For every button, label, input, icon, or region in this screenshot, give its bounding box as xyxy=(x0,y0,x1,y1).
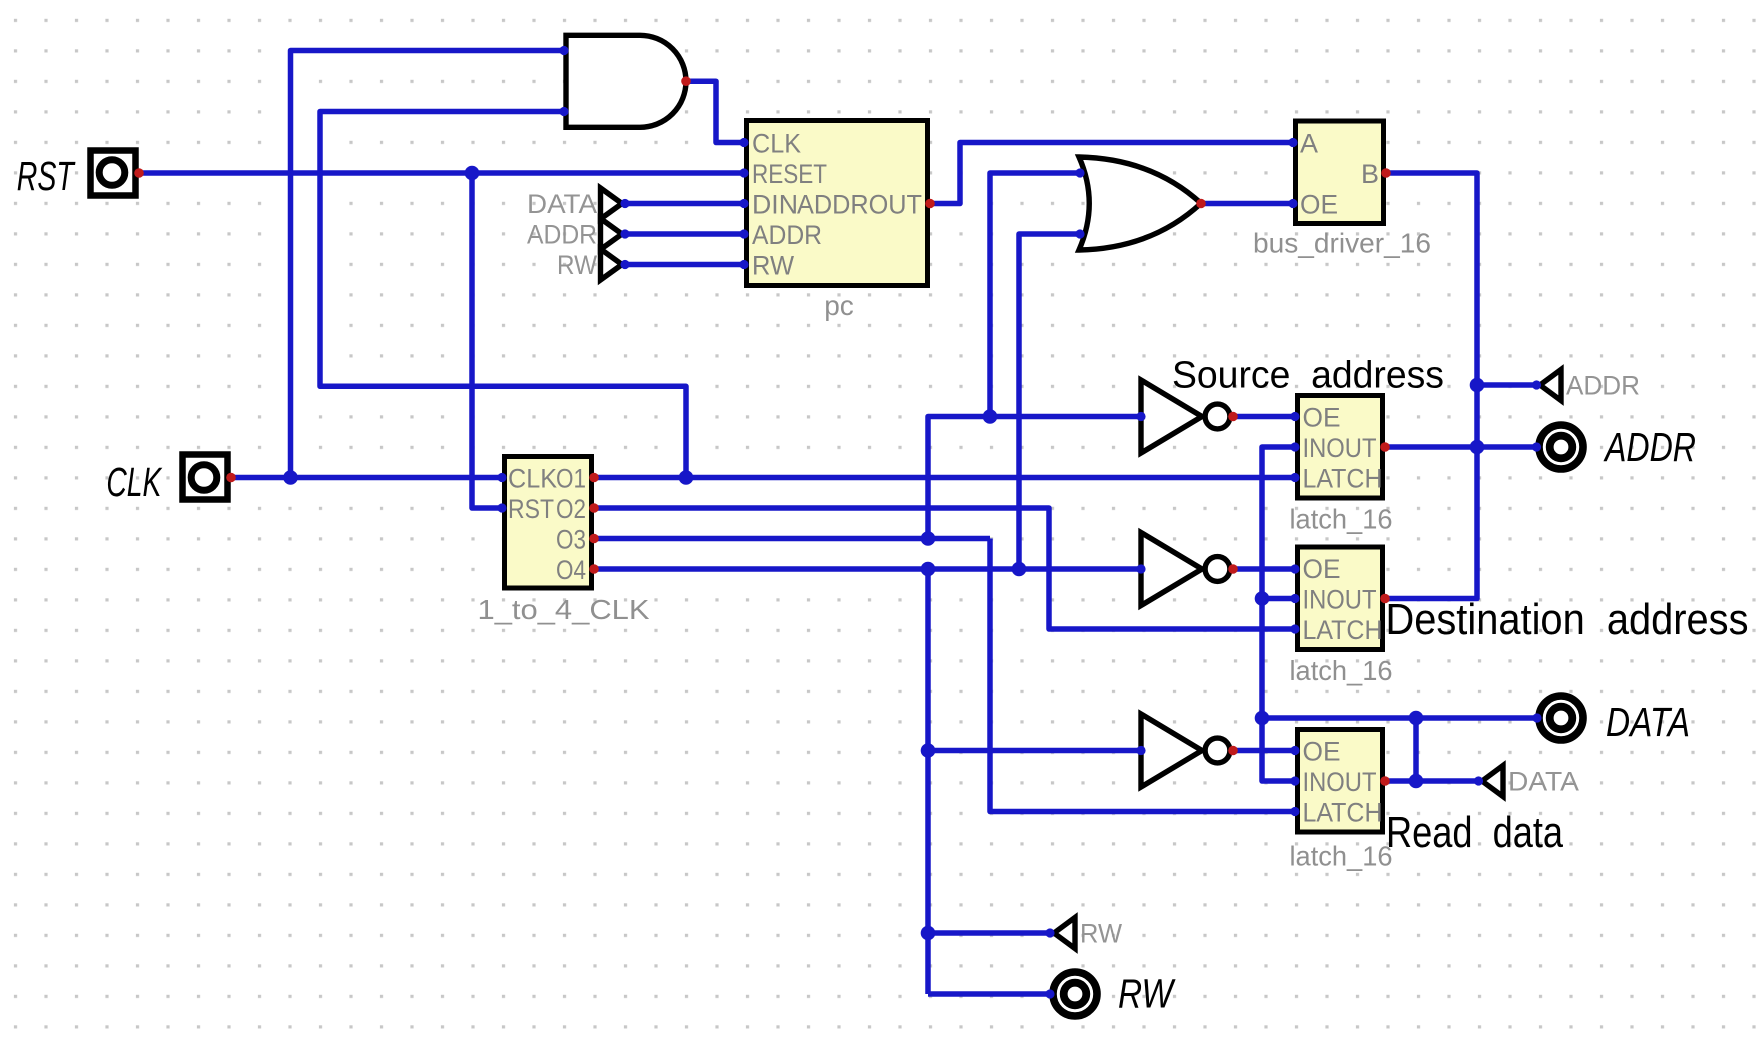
junction on O3 net at OR branch xyxy=(983,409,998,424)
pin dot pc RESET xyxy=(739,168,748,177)
pin dot RW tunnel bottom xyxy=(1045,928,1054,937)
junction on O4 net at OR branch xyxy=(1012,562,1027,577)
svg-text:CLK: CLK xyxy=(106,459,162,505)
svg-text:latch_16: latch_16 xyxy=(1290,504,1393,535)
tunnel ADDR input xyxy=(527,219,622,250)
svg-text:O1: O1 xyxy=(556,464,586,494)
block pc xyxy=(747,121,928,322)
red pin O4 xyxy=(589,564,599,574)
wire O2 to latch2 LATCH xyxy=(594,508,1295,629)
wire O1 branch to AND input 2 xyxy=(320,112,686,478)
tunnel RW bottom xyxy=(1054,918,1122,949)
junction on O4 net at RW tunnel branch xyxy=(921,926,936,941)
wire RST net horizontal xyxy=(139,170,744,176)
junction on data bus at latch2 INOUT xyxy=(1255,591,1270,606)
svg-text:RW: RW xyxy=(1118,971,1176,1017)
red pin NOT3 output xyxy=(1228,746,1238,756)
svg-text:INOUT: INOUT xyxy=(1303,433,1377,463)
pin dot RW output xyxy=(1045,989,1054,998)
svg-text:B: B xyxy=(1361,159,1379,189)
wire O3 to latch3 LATCH xyxy=(990,539,1295,812)
pin dot pc RW xyxy=(739,260,748,269)
pin dot latch3 INOUT xyxy=(1290,776,1299,785)
wire ADDR bus to ADDR tunnel xyxy=(1477,382,1537,388)
svg-text:DATA: DATA xyxy=(527,189,597,219)
junction on ADDR bus at output xyxy=(1470,440,1485,455)
svg-text:Destination address: Destination address xyxy=(1386,596,1749,644)
svg-text:pc: pc xyxy=(824,290,854,321)
pin dot DATA tunnel xyxy=(620,199,629,208)
output ADDR xyxy=(1539,425,1583,469)
junction on O4 net at NOT3 branch xyxy=(921,743,936,758)
pin dot pc ADDR xyxy=(739,229,748,238)
svg-text:1_to_4_CLK: 1_to_4_CLK xyxy=(478,594,650,625)
svg-text:OE: OE xyxy=(1300,190,1338,220)
wire to RW tunnel xyxy=(928,930,1050,936)
red pin latch2 INOUT right xyxy=(1380,594,1390,604)
wire data bus vertical link xyxy=(1413,718,1419,781)
wire O1 to latch1 LATCH xyxy=(594,475,1295,481)
svg-text:Source address: Source address xyxy=(1172,355,1444,397)
red pin latch3 INOUT right xyxy=(1380,776,1390,786)
output DATA xyxy=(1539,696,1583,740)
block latch_16 source xyxy=(1290,396,1393,535)
red pin NOT2 output xyxy=(1228,564,1238,574)
pin dot NOT1 input xyxy=(1136,412,1145,421)
svg-text:ADDR: ADDR xyxy=(527,220,597,250)
pin dot ADDR tunnel xyxy=(620,229,629,238)
svg-text:LATCH: LATCH xyxy=(1303,615,1383,645)
block latch_16 destination xyxy=(1290,547,1393,686)
block latch_16 read xyxy=(1290,730,1393,872)
wire OR input 2 from O4 net xyxy=(1019,234,1080,569)
junction on CLK net xyxy=(283,470,298,485)
pin dot AND input 1 xyxy=(559,46,568,55)
pin dot latch2 OE xyxy=(1290,564,1299,573)
svg-text:INOUT: INOUT xyxy=(1303,767,1377,797)
wire bus_driver B to ADDR bus xyxy=(1385,173,1477,599)
pin dot bus_driver A xyxy=(1288,138,1297,147)
red pin NOT1 output xyxy=(1228,412,1238,422)
tunnel ADDR right xyxy=(1540,370,1640,401)
pin dot latch3 OE xyxy=(1290,746,1299,755)
pin dot AND input 2 xyxy=(559,107,568,116)
svg-text:RW: RW xyxy=(752,251,794,281)
svg-text:OE: OE xyxy=(1303,554,1341,584)
pin dot pc CLK xyxy=(739,138,748,147)
svg-text:RST: RST xyxy=(17,153,76,199)
svg-text:OE: OE xyxy=(1303,737,1341,767)
red pin CLK button xyxy=(226,473,236,483)
red pin AND output xyxy=(681,76,691,86)
svg-text:INOUT: INOUT xyxy=(1303,585,1377,615)
pin dot bus_driver OE xyxy=(1288,199,1297,208)
wire latch1 INOUT to ADDR output xyxy=(1385,444,1537,450)
pin dot 1_to_4 CLK xyxy=(497,473,506,482)
svg-text:DATA: DATA xyxy=(1606,699,1690,745)
pin dot latch1 INOUT xyxy=(1290,442,1299,451)
wire NOT1 output to latch1 OE xyxy=(1233,414,1295,420)
svg-text:O2: O2 xyxy=(556,494,586,524)
wire DATA tunnel to pc DIN xyxy=(625,201,744,207)
wire to RW output xyxy=(928,991,1050,997)
red pin O2 xyxy=(589,503,599,513)
svg-text:O3: O3 xyxy=(556,525,586,555)
wire O4 branch down RW xyxy=(925,569,931,994)
svg-text:CLK: CLK xyxy=(752,129,801,159)
wire CLK branch to AND input 1 xyxy=(291,51,565,478)
svg-text:ADDR: ADDR xyxy=(752,220,822,250)
junction on DATA tunnel line xyxy=(1409,774,1424,789)
svg-text:ADDROUT: ADDROUT xyxy=(797,190,922,220)
wire data bus vertical latch INOUTs xyxy=(1262,447,1295,781)
junction on O3 net at NOT1 branch xyxy=(921,531,936,546)
svg-text:RW: RW xyxy=(1080,919,1122,949)
red pin O1 xyxy=(589,473,599,483)
junction on RST net xyxy=(465,166,480,181)
tunnel DATA input xyxy=(527,188,622,219)
svg-text:RST: RST xyxy=(508,494,554,524)
junction on O4 net at RW branch xyxy=(921,562,936,577)
pin dot latch1 LATCH xyxy=(1290,473,1299,482)
pin dot ADDR tunnel right xyxy=(1532,380,1541,389)
svg-text:CLK: CLK xyxy=(508,464,557,494)
pin dot RW tunnel xyxy=(620,260,629,269)
wire latch3 INOUT to DATA tunnel xyxy=(1385,778,1479,784)
pin dot OR input 1 xyxy=(1075,168,1084,177)
NOT gate U3 xyxy=(1141,380,1230,453)
wire O4 to NOT2 input xyxy=(594,566,1141,572)
pin dot ADDR output xyxy=(1532,442,1541,451)
pin dot latch1 OE xyxy=(1290,412,1299,421)
pin dot NOT2 input xyxy=(1136,564,1145,573)
red pin bus_driver B xyxy=(1381,168,1391,178)
svg-text:RW: RW xyxy=(557,250,597,280)
svg-text:latch_16: latch_16 xyxy=(1290,841,1393,872)
svg-text:latch_16: latch_16 xyxy=(1290,655,1393,686)
junction on DATA line xyxy=(1409,711,1424,726)
svg-text:OE: OE xyxy=(1303,403,1341,433)
pin dot DATA output xyxy=(1532,713,1541,722)
red pin O3 xyxy=(589,534,599,544)
svg-text:RESET: RESET xyxy=(752,159,827,189)
red pin latch1 INOUT right xyxy=(1380,442,1390,452)
wire AND output to pc CLK xyxy=(686,81,744,142)
svg-text:A: A xyxy=(1300,129,1318,159)
pin dot 1_to_4 RST xyxy=(497,503,506,512)
input button CLK xyxy=(183,455,228,500)
NOT gate U5 xyxy=(1141,714,1230,787)
svg-text:ADDR: ADDR xyxy=(1566,371,1640,401)
svg-text:O4: O4 xyxy=(556,555,586,585)
output RW xyxy=(1053,972,1097,1016)
red pin pc ADDROUT xyxy=(925,199,935,209)
svg-text:ADDR: ADDR xyxy=(1603,424,1696,470)
wire pc ADDROUT to bus_driver A xyxy=(930,143,1293,204)
wire RW tunnel to pc RW xyxy=(625,262,744,268)
junction on O1 net xyxy=(679,470,694,485)
OR gate U2 xyxy=(1079,157,1201,250)
wire to NOT3 input xyxy=(928,748,1141,754)
wire RST branch to 1_to_4_CLK RST pin xyxy=(472,173,502,508)
block 1_to_4_CLK xyxy=(478,457,650,626)
svg-text:LATCH: LATCH xyxy=(1303,464,1383,494)
svg-text:Read data: Read data xyxy=(1386,809,1564,857)
pin dot latch3 LATCH xyxy=(1290,807,1299,816)
red pin OR output xyxy=(1196,199,1206,209)
tunnel DATA right xyxy=(1482,766,1579,797)
pin dot OR input 2 xyxy=(1075,229,1084,238)
tunnel RW input xyxy=(557,249,622,280)
wire data bus to DATA output xyxy=(1262,715,1537,721)
wire NOT3 output to latch3 OE xyxy=(1233,748,1295,754)
junction on data bus at DATA line xyxy=(1255,711,1270,726)
pin dot latch2 INOUT xyxy=(1290,594,1299,603)
wire OR output to bus_driver OE xyxy=(1201,201,1293,207)
NOT gate U4 xyxy=(1141,533,1230,606)
wire ADDR tunnel to pc ADDR xyxy=(625,231,744,237)
svg-text:LATCH: LATCH xyxy=(1303,798,1383,828)
wire OR input 1 from O3 net xyxy=(990,173,1080,417)
input button RST xyxy=(91,151,136,196)
pin dot pc DIN xyxy=(739,199,748,208)
block bus_driver_16 xyxy=(1253,121,1431,259)
pin dot NOT3 input xyxy=(1136,746,1145,755)
pin dot DATA tunnel right xyxy=(1474,776,1483,785)
pin dot latch2 LATCH xyxy=(1290,624,1299,633)
wire data bus stub to latch2 INOUT xyxy=(1262,596,1295,602)
wire O3 branch to NOT1 input xyxy=(928,417,1141,539)
svg-text:DIN: DIN xyxy=(752,190,798,220)
wire O3 horizontal xyxy=(594,536,990,542)
svg-text:bus_driver_16: bus_driver_16 xyxy=(1253,228,1431,259)
svg-text:DATA: DATA xyxy=(1508,767,1579,797)
junction on ADDR bus at tunnel xyxy=(1470,378,1485,393)
red pin RST button xyxy=(134,168,144,178)
wire CLK net horizontal xyxy=(231,475,502,481)
wire NOT2 output to latch2 OE xyxy=(1233,566,1295,572)
AND gate U1 xyxy=(566,35,686,127)
